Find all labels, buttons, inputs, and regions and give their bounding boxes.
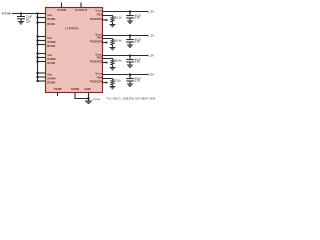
junction bus xyxy=(37,17,39,19)
svg-text:60.4k: 60.4k xyxy=(115,39,122,43)
svg-text:40.2k: 40.2k xyxy=(115,16,122,20)
wire FB2 xyxy=(103,39,113,40)
wire FB4 xyxy=(103,79,113,80)
junction bus xyxy=(37,61,39,63)
wire R1 lead xyxy=(112,22,114,25)
wire R2 lead xyxy=(112,45,114,48)
wire VOUT4 rail xyxy=(103,74,149,76)
label C1 xyxy=(135,13,142,19)
svg-text:4644 TA01a: 4644 TA01a xyxy=(93,98,101,101)
wire pin stub xyxy=(38,80,46,82)
wire pin stub xyxy=(38,53,46,55)
resistor R1 40.2k xyxy=(111,17,114,23)
svg-text:GND: GND xyxy=(84,87,90,91)
svg-text:25V: 25V xyxy=(26,20,31,24)
ground GND xyxy=(85,101,93,103)
junction GND xyxy=(88,98,90,100)
svg-text:1.5V AT 4A: 1.5V AT 4A xyxy=(148,10,155,14)
capacitor C2 47uF xyxy=(129,36,131,40)
svg-text:RUN1: RUN1 xyxy=(47,22,55,26)
capacitor C3 47uF xyxy=(129,56,131,60)
label C2 xyxy=(135,37,142,43)
ground C3 xyxy=(127,65,133,67)
wire FB1 xyxy=(103,16,113,17)
svg-text:0.9V AT 4A: 0.9V AT 4A xyxy=(148,73,155,77)
wire VIN bus xyxy=(37,14,39,82)
svg-text:1.0V AT 4A: 1.0V AT 4A xyxy=(148,54,155,58)
ground C1 xyxy=(127,21,133,23)
wire PGOOD2 stub xyxy=(103,42,107,44)
wire pin stub xyxy=(38,17,46,19)
junction bus xyxy=(37,22,39,24)
junction C4 tap xyxy=(129,74,131,76)
wire pin stub xyxy=(38,57,46,59)
wire PGOOD1 stub xyxy=(103,19,107,21)
svg-text:CLKOUT: CLKOUT xyxy=(75,8,87,12)
junction C3 tap xyxy=(129,55,131,57)
svg-text:PGOOD4: PGOOD4 xyxy=(90,79,103,83)
svg-text:FB1: FB1 xyxy=(97,12,103,16)
ground C4 xyxy=(127,84,133,86)
junction PGOOD1 xyxy=(106,19,108,21)
capacitor C4 47uF xyxy=(129,75,131,79)
pin CLKOUT xyxy=(80,3,82,8)
svg-text:SGND: SGND xyxy=(71,87,79,91)
svg-text:SVIN1: SVIN1 xyxy=(47,17,56,21)
svg-text:CLKIN: CLKIN xyxy=(57,8,66,12)
svg-text:6.3V: 6.3V xyxy=(135,40,141,44)
resistor R4 121k xyxy=(111,80,114,86)
junction bus xyxy=(37,40,39,42)
wire GND stub xyxy=(88,93,90,102)
junction PGOOD4 xyxy=(106,82,108,84)
ground R3 xyxy=(110,68,116,70)
svg-text:121k: 121k xyxy=(115,79,122,83)
resistor R2 60.4k xyxy=(111,40,114,46)
svg-text:RUN2: RUN2 xyxy=(47,44,55,48)
wire R3 lead xyxy=(112,65,114,68)
label C4 xyxy=(135,76,142,82)
capacitor C1 47uF xyxy=(129,12,131,16)
svg-text:PGOOD3: PGOOD3 xyxy=(90,59,103,63)
svg-text:PGOOD2: PGOOD2 xyxy=(90,39,103,43)
svg-text:RUN3: RUN3 xyxy=(47,61,55,65)
junction C1 tap xyxy=(129,11,131,13)
resistor R3 90.9k xyxy=(111,60,114,66)
svg-text:*TA = 60°C, 200LFM, NO HEAT SI: *TA = 60°C, 200LFM, NO HEAT SINK xyxy=(106,97,155,101)
svg-text:6.3V: 6.3V xyxy=(135,16,141,20)
wire R4 lead xyxy=(112,85,114,87)
wire pin stub xyxy=(38,22,46,24)
IC U1 LTM4644 xyxy=(46,8,103,93)
wire PGOOD4 stub xyxy=(103,82,107,84)
svg-text:LTM4644: LTM4644 xyxy=(65,26,78,30)
wire pin stub xyxy=(38,72,46,74)
svg-text:4V TO 14V: 4V TO 14V xyxy=(2,12,12,16)
wire TEMP stub xyxy=(57,93,59,97)
label C3 xyxy=(135,57,142,63)
svg-text:RUN4: RUN4 xyxy=(47,81,55,85)
capacitor CIN 22uF xyxy=(20,14,22,17)
wire VIN input xyxy=(12,13,46,15)
junction bus xyxy=(37,57,39,59)
ground R4 xyxy=(110,87,116,89)
pin CLKIN xyxy=(61,3,63,8)
ground C2 xyxy=(127,45,133,47)
junction C2 tap xyxy=(129,35,131,37)
junction bus xyxy=(37,36,39,38)
svg-text:1.2V AT 4A: 1.2V AT 4A xyxy=(148,34,155,38)
junction bus xyxy=(37,53,39,55)
wire pin stub xyxy=(38,36,46,38)
wire FB3 xyxy=(103,59,113,60)
junction bus xyxy=(37,44,39,46)
junction CIN tap xyxy=(20,13,22,15)
junction bus xyxy=(37,76,39,78)
junction PGOOD2 xyxy=(106,42,108,44)
wire VOUT2 rail xyxy=(103,35,149,37)
label CIN xyxy=(26,14,33,23)
wire PGOOD3 stub xyxy=(103,62,107,64)
wire pin stub xyxy=(38,76,46,78)
junction bus xyxy=(37,13,39,15)
wire pin stub xyxy=(38,40,46,42)
svg-text:TEMP: TEMP xyxy=(54,87,62,91)
svg-text:PGOOD1: PGOOD1 xyxy=(90,17,103,21)
svg-text:6.3V: 6.3V xyxy=(135,60,141,64)
wire pin stub xyxy=(38,61,46,63)
ground R2 xyxy=(110,48,116,50)
svg-text:6.3V: 6.3V xyxy=(135,79,141,83)
junction bus xyxy=(37,80,39,82)
wire VOUT3 rail xyxy=(103,55,149,57)
junction bus xyxy=(37,72,39,74)
wire VOUT1 rail xyxy=(103,11,149,13)
wire SGND stub xyxy=(75,93,89,99)
ground R1 xyxy=(110,25,116,27)
svg-text:90.9k: 90.9k xyxy=(115,59,122,63)
ground CIN xyxy=(18,22,24,24)
junction PGOOD3 xyxy=(106,62,108,64)
wire pin stub xyxy=(38,44,46,46)
